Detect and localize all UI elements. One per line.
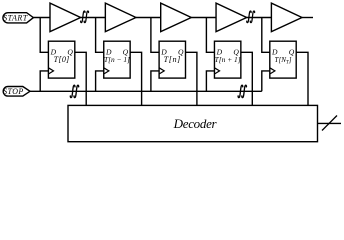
wire break squiggle on delay line after U4	[247, 11, 255, 23]
wire break squiggle on delay line after U1	[81, 11, 89, 23]
Q wire FF3 to decoder	[186, 52, 197, 105]
svg-text:T[0]: T[0]	[54, 55, 70, 64]
clock wire FF3 from STOP line	[151, 71, 159, 91]
D flip-flop T[NT]	[270, 41, 296, 78]
clock wire FF5 from STOP line	[262, 71, 270, 91]
clock wire FF2 from STOP line	[96, 71, 104, 91]
wire U1 to U2	[81, 17, 106, 19]
wire tap to FF5 D input	[262, 18, 270, 53]
wire tap to FF3 D input	[151, 18, 159, 53]
wire tap to FF1 D input	[40, 18, 48, 53]
buffer U2	[105, 3, 136, 32]
bus width slash on output	[322, 116, 337, 131]
D flip-flop T[0]	[48, 41, 74, 78]
decoder output wire	[318, 122, 342, 124]
decoder block U6	[68, 105, 318, 141]
node STOP (input tag)	[3, 87, 30, 97]
svg-text:START: START	[3, 14, 28, 23]
svg-text:T[n − 1]: T[n − 1]	[104, 55, 130, 64]
svg-text:T[n + 1]: T[n + 1]	[215, 55, 241, 64]
clock wire FF4 from STOP line	[206, 71, 214, 91]
Q wire FF5 to decoder	[296, 52, 308, 105]
buffer U4	[216, 3, 247, 32]
D flip-flop T[n-1]	[104, 41, 130, 78]
D flip-flop T[n+1]	[214, 41, 240, 78]
wire tap to FF4 D input	[206, 18, 214, 53]
D flip-flop T[n]	[159, 41, 185, 78]
wire U3 to U4	[191, 17, 216, 19]
buffer U3	[161, 3, 192, 32]
wire break squiggle on STOP line left	[70, 85, 78, 97]
STOP wire bus	[30, 90, 262, 92]
Q wire FF2 to decoder	[130, 52, 141, 105]
wire tap to FF2 D input	[96, 18, 104, 53]
svg-text:STOP: STOP	[3, 87, 24, 96]
clock wire FF1 from STOP line	[40, 71, 48, 91]
svg-text:Decoder: Decoder	[173, 116, 218, 131]
wire U5 output stub	[302, 17, 313, 19]
Q wire FF1 to decoder	[75, 52, 86, 105]
Q wire FF4 to decoder	[241, 52, 252, 105]
svg-text:T[n]: T[n]	[164, 55, 181, 64]
wire break squiggle on STOP line right	[238, 85, 246, 97]
svg-text:T[NT]: T[NT]	[275, 56, 292, 65]
buffer U5	[271, 3, 302, 32]
wire START to U1	[33, 17, 50, 19]
buffer U1	[50, 3, 81, 32]
node START (input tag)	[3, 13, 34, 23]
wire U2 to U3	[136, 17, 161, 19]
wire U4 to U5	[247, 17, 272, 19]
